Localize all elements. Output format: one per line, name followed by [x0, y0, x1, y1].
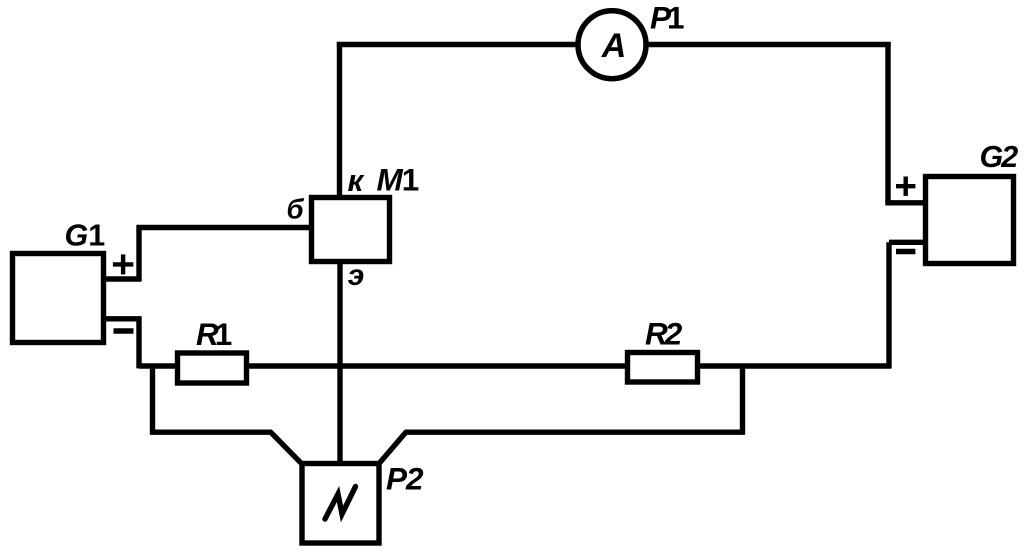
transistor module M1 box	[312, 198, 390, 262]
resistor R1	[178, 353, 247, 383]
wire: G2 minus lead horizontal	[889, 240, 928, 245]
wire: left slant down to P2 top-left corner	[270, 432, 301, 464]
svg-text:к: к	[348, 163, 365, 198]
wire: bottom left horizontal	[150, 430, 271, 435]
wire: G1 plus lead horizontal	[100, 276, 141, 281]
wire: G1 plus vertical up to base wire	[136, 225, 141, 281]
svg-text:M1: M1	[377, 162, 420, 198]
svg-text:P2: P2	[386, 461, 424, 497]
wire: bottom right horizontal	[405, 430, 745, 435]
wire: top horizontal from M1 collector to G2 plus trunk	[337, 42, 891, 47]
wire: right vertical from top wire down to G2 plus	[885, 42, 890, 203]
wire: G1 minus lead horizontal	[100, 316, 141, 321]
svg-text:э: э	[348, 259, 365, 292]
svg-text:G1: G1	[65, 219, 106, 253]
wire: emitter vertical from M1 bottom through R1 line to P2 top	[337, 261, 342, 464]
galvanometer zigzag symbol inside P2	[325, 487, 356, 520]
wire: left vertical from top wire down to M1 top (k)	[337, 42, 342, 198]
svg-text:P1: P1	[650, 0, 685, 36]
ammeter P1 circle	[578, 11, 646, 79]
wire: base wire horizontal to M1 left (b)	[137, 225, 313, 230]
minus sign G1	[114, 328, 134, 333]
svg-text:б: б	[287, 194, 305, 225]
wire: right slant from P2 top-right corner up	[380, 432, 407, 464]
battery G1 box	[13, 254, 104, 343]
wire: G2 plus lead horizontal	[885, 200, 928, 205]
svg-text:G2: G2	[980, 140, 1019, 174]
wire: left lower vertical from R1 line to bottom wire	[150, 364, 155, 435]
wire: right lower vertical from R2 line down to bottom wire	[740, 366, 745, 435]
resistor R2	[628, 353, 698, 383]
battery G2 box	[926, 177, 1014, 264]
wire: main horizontal line through R1 and R2	[139, 363, 891, 368]
minus sign G2	[896, 249, 915, 254]
wire: G1 minus vertical down to R1 line	[136, 317, 141, 369]
svg-text:R1: R1	[196, 316, 232, 352]
plus sign G2	[896, 177, 915, 196]
svg-text:R2: R2	[645, 316, 683, 352]
plus sign G1	[113, 254, 133, 274]
svg-text:A: A	[601, 27, 627, 65]
wire: right lower vertical from G2 minus down to R2 line	[886, 242, 891, 368]
galvanometer P2 box	[302, 464, 379, 544]
